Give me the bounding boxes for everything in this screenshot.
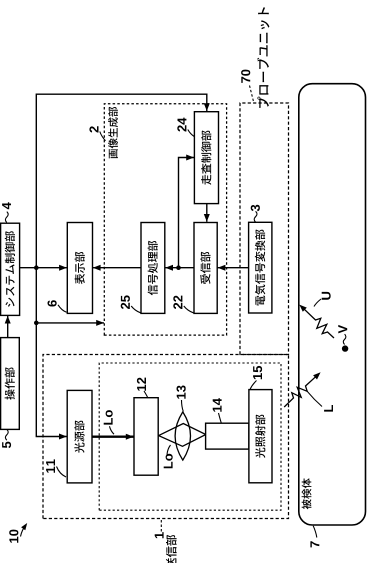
wire: control branch into 画像生成部 — [36, 320, 104, 326]
dashed box: probe unit 70 (プローブユニット) — [240, 103, 289, 355]
label 6 with leader — [48, 300, 67, 312]
wire: 受信部 to 信号処理部 — [165, 265, 194, 271]
label 14 with leader — [213, 398, 222, 423]
label 70 with dashed leader — [241, 70, 253, 102]
wire: 電気信号変換部 to 受信部 — [218, 265, 249, 271]
junction node on bus at feedback branch — [34, 321, 39, 326]
wire: branch to 走査制御部 top — [179, 155, 195, 268]
subject 7 (被検体) rounded rectangle — [299, 84, 366, 525]
label 4 with squiggle leader — [2, 202, 11, 222]
wire: 操作部 to システム制御部 — [5, 316, 11, 338]
label U — [314, 292, 331, 307]
wire: システム制御部 to 表示部 — [20, 265, 67, 271]
dashed box: transmission unit 1 (送信部) — [43, 355, 289, 519]
block: scan control unit 24 (走査制御部) — [194, 112, 218, 204]
label 10 with arrow — [9, 525, 26, 543]
dashed box: image generation unit 2 (画像生成部) — [104, 104, 226, 335]
lens 13 (pointed oval) — [175, 412, 190, 460]
block: light guide 14 — [206, 423, 249, 449]
label 24 with leader — [177, 118, 194, 137]
label 1 with dashed leader — [155, 519, 164, 538]
label 5 with squiggle leader — [2, 429, 11, 448]
label L — [324, 405, 333, 412]
block: operation unit 5 (操作部) — [1, 338, 20, 430]
junction node on bus at display column — [34, 265, 39, 270]
light L wavy arrow into subject — [284, 372, 322, 407]
wire: 走査制御部 to 受信部 — [204, 204, 210, 222]
block: light source unit 11 (光源部) — [67, 390, 92, 483]
label プローブユニット text — [257, 7, 269, 108]
label 13 with leader — [177, 386, 186, 412]
label Lo near lens — [164, 445, 173, 468]
label 7 with leader — [310, 526, 319, 548]
block: optical unit 12 — [134, 398, 158, 476]
label 15 with leader — [250, 366, 262, 390]
wire: 信号処理部 to 表示部 — [93, 265, 141, 271]
label 11 with leader — [46, 459, 66, 477]
acoustic U wavy arrow to transducer — [299, 305, 334, 338]
block: signal processing unit 25 (信号処理部) — [141, 223, 165, 314]
beam diamond between box 12 and box 14 — [159, 424, 206, 447]
label 10 arrowhead — [21, 523, 27, 530]
block: display unit 6 (表示部) — [67, 223, 92, 314]
block: receiving unit 22 (受信部) — [194, 223, 217, 314]
label Lo near light source — [104, 410, 114, 434]
label 12 with leader — [137, 378, 148, 398]
block: system control unit 4 (システム制御部) — [1, 223, 20, 315]
block: electric signal conversion unit 3 (電気信号変換部) — [249, 222, 272, 313]
label 22 with leader — [173, 296, 193, 313]
dashed box: inner optical unit — [99, 363, 281, 510]
label 3 with squiggle leader — [251, 205, 260, 222]
block: light irradiation unit 15 (光照射部) — [249, 390, 272, 483]
wire: control bus from システム制御部 to 光源部 and 走査制御部 — [36, 94, 210, 439]
label 画像生成部 text — [108, 107, 118, 159]
wire: light Lo from 光源部 to box 12 (thick) — [92, 434, 133, 440]
absorber V dot — [342, 345, 348, 351]
label 送信部 text — [166, 535, 177, 563]
label V — [338, 325, 347, 345]
label 被検体 text — [302, 478, 312, 509]
label 2 with leader — [89, 126, 105, 140]
label 25 with leader — [121, 295, 141, 312]
junction node on signal line — [176, 265, 181, 270]
